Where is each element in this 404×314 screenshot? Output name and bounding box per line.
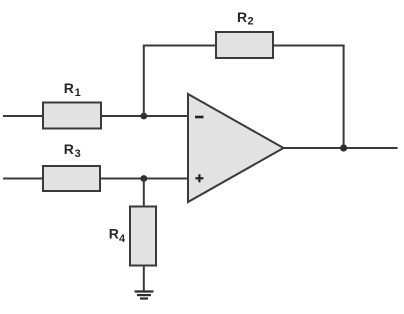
- resistor R3: [43, 166, 100, 191]
- resistor R2: [216, 32, 273, 58]
- junction node at inverting input: [140, 113, 147, 120]
- wire feedback riser up: [143, 46, 145, 117]
- resistor R1: [43, 103, 101, 129]
- svg-text:R: R: [64, 141, 74, 157]
- pin plus (non-inverting input): [195, 174, 203, 182]
- svg-text:R: R: [109, 226, 119, 242]
- svg-text:2: 2: [248, 15, 254, 27]
- wire output: [284, 147, 398, 149]
- junction node at output: [340, 144, 347, 151]
- svg-text:R: R: [237, 9, 247, 25]
- wire down to R4: [143, 179, 145, 208]
- pin minus (inverting input): [195, 116, 204, 119]
- wire R3 to non-inverting input: [100, 178, 188, 180]
- svg-text:3: 3: [75, 148, 81, 160]
- wire input 2 to R3: [3, 178, 44, 180]
- wire R1 to inverting input: [101, 115, 188, 117]
- op-amp U1: [188, 94, 284, 202]
- junction node at non-inverting input: [140, 175, 147, 182]
- wire R2 to output column: [273, 45, 345, 47]
- wire input 1 to R1: [3, 115, 44, 117]
- resistor R4: [130, 207, 156, 266]
- svg-text:R: R: [64, 80, 74, 96]
- wire R4 to ground: [143, 266, 145, 292]
- svg-text:1: 1: [75, 87, 81, 99]
- wire feedback top to R2: [143, 45, 216, 47]
- wire feedback down to output node: [343, 46, 345, 149]
- svg-text:4: 4: [119, 233, 126, 245]
- ground: [135, 292, 154, 299]
